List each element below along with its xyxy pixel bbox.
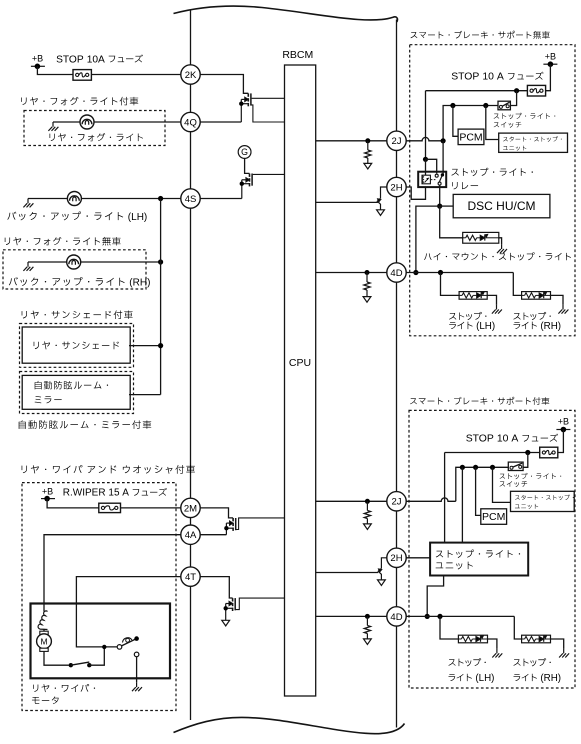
DSC HU/CM unit [453,194,550,217]
stop light LH (2) E7 [458,635,487,643]
lamp E2 back-up light LH [67,192,81,206]
ground G1 [48,122,58,131]
wire [461,467,463,542]
wire supply [426,90,528,92]
node junction stop LH 2 [437,614,442,619]
wire 2J to relay node (hop over supply) [406,137,443,140]
transistor Q1 (rear fog output) [239,93,251,122]
node junction sunshade [158,343,163,348]
stop light switch SW2 [508,462,523,470]
label rear wiper motor [32,684,95,704]
node junction 4S-branch [158,196,163,201]
connector pin 2K [181,65,200,84]
resistor R2 (4D) [364,273,370,297]
battery feed +B (wiper fuse) [41,487,55,502]
wire 2K to Q1 drain [200,75,248,94]
wire [440,616,458,639]
wire 4S line to Q2 [200,198,242,200]
fuse F3 STOP 10A [527,85,545,96]
wire Q3 gate to CPU [236,518,285,530]
PCM unit (1) [458,129,484,145]
wire branch vertical [160,199,162,395]
option box wiper [22,483,176,711]
wire [47,499,99,508]
label smart brake support equipped [410,397,549,405]
svg-text:+B: +B [32,54,43,64]
wire 4D rail [406,272,513,274]
wire Q4 gate to CPU [235,598,284,610]
svg-text:2M: 2M [184,503,197,514]
ground G5 [497,244,507,253]
node G (generator signal) [238,146,251,159]
svg-text:(RH): (RH) [540,321,561,332]
wire [81,198,180,200]
node junction 2J pulldown [365,138,370,143]
node junction park feed [102,645,106,649]
ground arrow (2H lower) [378,580,386,586]
wire switch rail 2 [456,467,509,501]
start-stop unit (1) [499,133,568,152]
PCM unit (2) [481,509,507,525]
ground arrow (R4) [364,639,372,645]
svg-text:A: A [511,434,518,445]
label back-up light RH [9,277,151,288]
node junction stop LH [438,270,443,275]
wire G to Q2 drain [245,158,250,173]
wire [28,198,67,200]
ground G8 [492,649,502,658]
label auto-dimming mirror equipped [19,420,152,429]
wire right bus [396,20,398,728]
wire Q3 source to 4A [200,534,226,536]
wire [129,345,161,347]
label STOP 10 A fuse (2) [466,434,558,445]
label stop light RH (2) [513,658,561,684]
wire [440,205,454,207]
svg-text:4Q: 4Q [184,117,197,128]
switch contact a (motor circuit) [69,663,73,667]
wire switch rail [443,106,498,141]
resistor R4 (4D lower) [364,616,370,639]
wire 2H to relay coil [406,187,425,199]
svg-text:10A: 10A [87,54,105,65]
switch blade (motor circuit) [71,662,90,665]
battery feed +B (stop fuse 1) [543,52,557,68]
wire [513,273,521,296]
svg-text:PCM: PCM [482,511,505,523]
connector pin 4T [181,567,200,586]
label rear fog light equipped [21,97,138,106]
wire [546,64,551,91]
connector pin 4D upper [387,263,406,282]
park switch lower contact [134,652,139,657]
label STOP 10 A fuse (1) [451,72,543,83]
svg-text:10: 10 [497,434,509,445]
svg-text:2H: 2H [390,182,402,193]
high-mount stop light E4 [463,232,499,243]
wire [91,74,180,76]
wire CPU to 4D lower [316,615,387,617]
RBCM module boundary (top harness break) [174,6,398,22]
svg-text:4S: 4S [185,194,197,205]
svg-text:STOP: STOP [56,54,84,65]
option box back-up RH [3,250,146,289]
label stop light RH (1) [513,312,561,332]
wire Q1 gate to CPU [252,97,285,99]
wire 2H to stop light unit [406,557,430,559]
svg-text:4D: 4D [390,268,402,279]
svg-text:STOP: STOP [451,72,479,83]
option box mirror [20,372,134,414]
wire relay supply vertical [425,91,427,160]
node junction 4D pulldown [365,270,370,275]
park switch blade [122,639,136,646]
wire [523,453,528,468]
ground arrow (R3) [364,524,372,530]
wire [476,467,481,515]
wire CPU to 2J [316,140,387,142]
svg-text:2H: 2H [390,553,402,564]
node junction RH-branch [158,259,163,264]
wire [493,467,511,502]
svg-text:(LH): (LH) [128,212,147,223]
ground G7 [558,305,568,314]
ground arrow (2H upper) [377,210,385,216]
connector pin 2H upper [387,177,406,196]
node junction SSU feed [483,103,488,108]
label R.WIPER 15A fuse [63,488,167,499]
wire [136,657,138,683]
label STOP 10A fuse [56,54,143,65]
connector pin 2M [181,498,200,517]
wire CPU to 2J lower [316,500,387,502]
wire [425,159,427,175]
label stop light LH (1) [449,312,495,332]
battery feed +B (stop fuse 2) [556,417,570,433]
wire 4A to motor [44,535,181,612]
connector pin 4D lower [387,607,406,626]
wire relay output [439,185,441,206]
node junction PCM feed [450,103,455,108]
svg-text:2K: 2K [185,70,197,81]
wire [121,507,181,509]
node junction switch feed [514,88,519,93]
label rear fog light [50,133,143,141]
cam symbol [123,638,132,643]
transistor Q4 (washer output) [224,598,236,620]
label rear fog light not equipped [5,237,121,246]
battery feed +B (stop fuse) [31,54,45,70]
connector pin 2J lower [387,492,406,511]
label rear wiper and washer equipped [22,465,195,474]
label stop light switch (1) [494,113,556,128]
motor M1 [37,629,52,652]
RBCM module boundary (bottom harness break) [174,717,405,733]
park switch upper contact [134,636,139,641]
wire [28,261,67,263]
rear wiper motor box [31,604,171,679]
svg-text:(RH): (RH) [540,673,561,684]
stop light unit [430,543,528,576]
svg-text:(RH): (RH) [129,277,150,288]
svg-text:DSC HU/CM: DSC HU/CM [468,199,536,213]
option box sunshade [20,324,134,368]
wire [426,159,437,173]
label stop light relay [451,168,532,190]
ground G3 [23,262,33,271]
svg-text:STOP: STOP [466,434,494,445]
label high-mount stop light [424,252,571,260]
svg-text:+B: +B [545,52,556,62]
wire 4Q line [200,121,241,123]
wire [441,273,460,296]
wire 4D lower rail [406,615,514,617]
wire Q2 gate to CPU [253,173,285,175]
transistor 2H driver (lower) [378,558,387,580]
fuse F4 STOP 10A [540,447,558,458]
ground arrow (Q4 source) [222,620,230,626]
ground G9 [559,649,569,658]
label stop light switch (2) [500,473,562,487]
option box rear fog light [24,111,165,146]
svg-text:10: 10 [482,72,494,83]
wire CPU to 4D [316,272,387,274]
svg-text:PCM: PCM [459,131,482,143]
label back-up light LH [7,211,147,222]
stop light LH (1) E5 [459,292,487,300]
RBCM label [282,49,313,61]
inductor coil (wiper motor) [38,611,47,630]
node junction 2J lower pulldown [365,499,370,504]
wire [37,66,73,74]
wire [499,238,502,244]
resistor R1 (2J) [365,141,371,164]
wire stop light unit supply [444,453,446,543]
node junction PCM feed 2 [473,465,478,470]
node junction switch feed 2 [525,450,530,455]
stop light relay K1 [418,172,446,187]
transistor Q3 (wiper hi output) [224,518,236,535]
connector pin 4Q [181,112,200,131]
lamp E1 rear fog light [80,115,94,129]
node junction 4D lower feed [425,614,430,619]
svg-text:CPU: CPU [289,357,311,369]
wire [486,106,499,140]
wire [440,206,463,238]
wire [129,394,161,396]
wire [558,430,564,453]
node junction relay output [437,204,442,209]
wire [487,295,496,304]
option box smart brake w/o [410,45,575,336]
svg-text:4A: 4A [185,530,197,541]
wire left bus [190,11,192,721]
svg-text:A: A [497,72,504,83]
wire [453,106,458,137]
wire 2J lower to rail (hop) [406,498,456,501]
wire [427,576,443,617]
wire [488,639,497,649]
wire supply 2 [445,452,540,454]
svg-text:2J: 2J [391,136,401,147]
ground G6 [492,305,502,314]
fuse F1 STOP 10A [73,70,91,81]
start-stop unit (2) [511,491,575,511]
node junction coil/contact supply [423,157,428,162]
wire CPU to 2H driver [316,201,378,203]
svg-text:(LH): (LH) [476,321,495,332]
svg-text:4T: 4T [185,572,196,583]
wire [551,639,564,649]
svg-text:G: G [241,147,248,157]
ground arrow (R2) [363,297,371,303]
connector pin 2H lower [387,548,406,567]
transistor 2H driver (upper) [377,187,387,210]
wire 4Q sense to CPU [251,105,285,122]
stop light switch SW1 [498,101,510,110]
svg-text:RBCM: RBCM [282,49,313,61]
lamp E3 back-up light RH [67,255,81,269]
ground arrow (R1) [364,163,372,169]
node junction 2J relay contact [441,138,446,143]
svg-text:A: A [122,488,129,499]
connector pin 4S [181,189,200,208]
wire relay contact feed [442,141,444,175]
node junction SLU feed [460,465,465,470]
label rear sunshade equipped [22,310,133,319]
wire [53,121,80,123]
transistor Q2 (back-up output) [240,174,253,199]
wire [416,206,440,272]
label smart brake support not equipped [411,31,550,39]
wire [514,616,521,639]
CPU U1 [285,65,316,696]
svg-text:4D: 4D [390,612,402,623]
wire 4T to park switch [76,577,180,647]
wire [94,121,181,123]
connector pin 2J upper [387,131,406,150]
ground G4 (wiper motor) [132,682,142,691]
switch contact b (motor circuit) [87,663,91,667]
resistor R3 (2J lower) [364,501,370,524]
wire [81,261,161,263]
node junction 4D lower pulldown [365,614,370,619]
node junction SSU feed 2 [490,465,495,470]
svg-text:+B: +B [42,487,53,497]
wire [89,647,104,665]
connector pin 4A [181,525,200,544]
svg-text:(LH): (LH) [475,673,494,684]
wire 2M to Q3 drain [200,508,233,518]
svg-text:+B: +B [558,417,569,427]
auto-dimming room mirror unit [22,375,130,409]
svg-text:2J: 2J [391,497,401,508]
wire [44,651,69,665]
park switch common contact [117,645,122,650]
wire CPU to 2H driver lower [316,572,379,574]
option box smart brake with [409,410,575,688]
svg-text:R.WIPER: R.WIPER [63,488,106,499]
stop light RH (2) E8 [522,635,551,643]
svg-text:M: M [40,637,47,647]
wire [551,295,564,304]
node junction 4D feed [413,270,418,275]
svg-text:15: 15 [108,488,120,499]
stop light RH (1) E6 [522,292,551,300]
wire 4T to Q4 drain [200,577,232,598]
label stop light LH (2) [448,658,494,684]
fuse F2 R.WIPER 15A [99,503,121,512]
wire [510,91,516,106]
rear sunshade unit [22,327,130,363]
ground G2 [23,199,33,208]
